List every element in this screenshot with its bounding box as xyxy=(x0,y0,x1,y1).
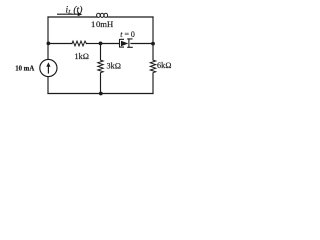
switch SW blade arrow xyxy=(121,41,128,47)
wire top from node B to inductor xyxy=(48,16,97,18)
current source I1 arrow xyxy=(47,66,49,74)
wire left vertical from top corner to current source xyxy=(47,17,49,59)
resistor R3 6k ohm vertical xyxy=(150,60,155,74)
switch SW right contact bracket xyxy=(127,39,133,48)
wire right vertical lower segment xyxy=(152,74,154,94)
svg-text:iL (t): iL (t) xyxy=(66,4,83,16)
current source I1 circle xyxy=(40,59,57,76)
switch SW left contact bracket xyxy=(120,39,125,48)
resistor R2 3k ohm vertical xyxy=(98,60,103,74)
wire 3k branch upper xyxy=(100,44,102,60)
wire top from inductor to top-right corner xyxy=(108,16,153,18)
node B dot xyxy=(47,42,51,46)
node C dot xyxy=(151,42,155,46)
svg-text:1kΩ: 1kΩ xyxy=(75,52,89,61)
wire left vertical below current source xyxy=(47,77,49,94)
inductor L1 10mH xyxy=(97,13,101,17)
node A dot xyxy=(99,42,103,46)
resistor R1 1k ohm horizontal xyxy=(72,41,87,46)
wire 3k branch lower xyxy=(100,74,102,94)
wire right vertical upper segment xyxy=(152,17,154,60)
arrow for inductor current iL xyxy=(57,13,80,15)
svg-text:3kΩ: 3kΩ xyxy=(107,62,121,71)
wire middle from node B to resistor R1 xyxy=(48,43,72,45)
node D dot (bottom) xyxy=(99,92,103,96)
wire middle from node A to switch xyxy=(101,43,120,45)
svg-text:6kΩ: 6kΩ xyxy=(157,61,171,70)
svg-text:10 mA: 10 mA xyxy=(15,65,34,72)
wire bottom xyxy=(48,93,153,95)
wire middle from R1 to node A xyxy=(87,43,101,45)
svg-text:t = 0: t = 0 xyxy=(120,30,135,39)
svg-text:1 0mH: 1 0mH xyxy=(91,19,113,29)
wire middle from switch to right vertical xyxy=(131,43,153,45)
